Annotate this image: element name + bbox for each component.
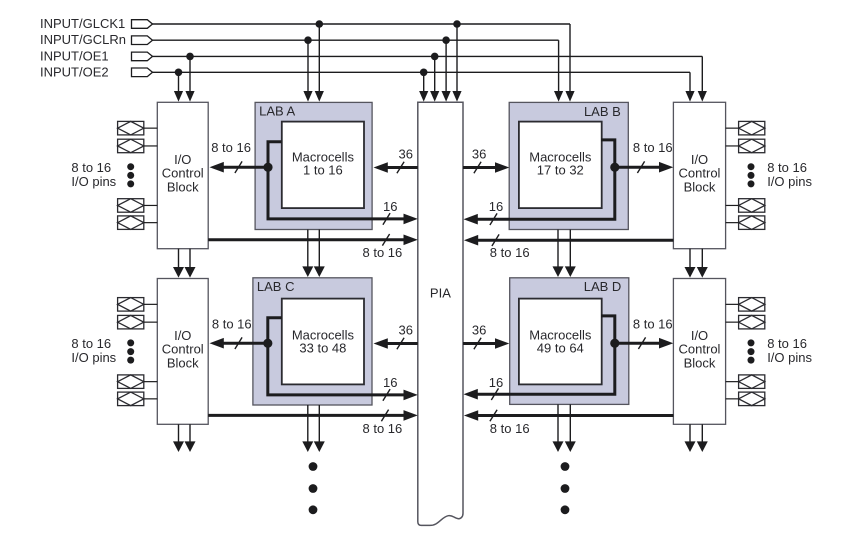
wire right I/O column bottom drop 1 [685, 424, 696, 452]
wire OE2 drop to PIA [419, 72, 428, 101]
label 36 Q2 [472, 147, 486, 162]
wire OE2 drop to right I/O block [685, 72, 694, 101]
wire PIA to LAB B (36) [463, 162, 509, 173]
wire PIA to LAB C (36) [374, 338, 418, 349]
svg-text:36: 36 [399, 147, 413, 162]
svg-text:I/O pins: I/O pins [71, 350, 116, 365]
wire GCLRn drop to PIA [442, 40, 451, 101]
net label INPUT/GCLRn [40, 32, 126, 47]
bus slash Q2 c [490, 213, 497, 225]
bus slash Q4 a [638, 337, 645, 349]
svg-text:Block: Block [684, 356, 716, 371]
svg-text:8 to 16: 8 to 16 [767, 336, 807, 351]
svg-text:INPUT/GCLRn: INPUT/GCLRn [40, 32, 126, 47]
svg-text:Control: Control [162, 166, 204, 181]
wire left I/O to PIA lower (8 to 16) [208, 410, 418, 421]
junction OE1/left I/O [186, 53, 194, 61]
svg-text:INPUT/OE1: INPUT/OE1 [40, 48, 109, 63]
svg-text:LAB C: LAB C [257, 279, 295, 294]
wire LAB A/C column bottom drop 2 [314, 405, 325, 452]
svg-text:Control: Control [679, 166, 721, 181]
label 8 to 16 I/O pins left lower [71, 336, 116, 365]
svg-text:8 to 16: 8 to 16 [633, 317, 673, 332]
bus slash Q1 c [383, 213, 390, 225]
junction GLCK1/PIA [453, 20, 461, 28]
LAB C block [253, 278, 372, 405]
wire left I/O to PIA (8 to 16) [208, 235, 418, 246]
label 36 Q4 [472, 323, 486, 338]
I/O pin symbol right lower 3 [726, 375, 765, 389]
junction LAB C feedback node [263, 339, 272, 348]
svg-text:8 to 16: 8 to 16 [490, 245, 530, 260]
bus slash Q1 b [397, 162, 404, 174]
I/O pin symbol left upper 4 [118, 216, 158, 230]
bus slash Q2 b [474, 162, 481, 174]
I/O pin symbol left lower 3 [118, 375, 158, 389]
wire GCLRn horizontal [153, 39, 559, 41]
continuation dots below LAB D [561, 462, 570, 514]
wire GLCK1 drop to LAB A [315, 24, 324, 102]
wire GLCK1 drop to PIA [452, 24, 461, 102]
junction OE2/PIA [420, 69, 428, 77]
bus slash Q1 d [382, 234, 389, 246]
wire left I/O column mid drop 1 [173, 249, 184, 278]
svg-text:INPUT/OE2: INPUT/OE2 [40, 64, 109, 79]
svg-text:Control: Control [162, 342, 204, 357]
svg-text:16: 16 [383, 375, 397, 390]
bus slash Q3 a [235, 337, 242, 349]
LAB A block [255, 102, 372, 229]
input buffer OE1 [132, 52, 153, 61]
label 8 to 16 I/O pins right lower [767, 336, 812, 365]
I/O pin symbol right upper 2 [726, 139, 765, 153]
junction OE2/left I/O [175, 69, 183, 77]
svg-text:Block: Block [684, 180, 716, 195]
svg-text:8 to 16: 8 to 16 [211, 140, 251, 155]
label 8 to 16 Q1 bottom [363, 245, 403, 260]
svg-text:8 to 16: 8 to 16 [767, 160, 807, 175]
wire LAB D to right I/O (8 to 16) [615, 338, 674, 349]
svg-text:INPUT/GLCK1: INPUT/GLCK1 [40, 16, 125, 31]
wire GLCK1 drop to LAB B [565, 24, 574, 102]
macrocells U3 (33 to 48) [282, 299, 364, 385]
bus slash Q2 a [637, 161, 644, 173]
svg-text:8 to 16: 8 to 16 [71, 160, 111, 175]
I/O pins dots left lower [127, 339, 134, 363]
I/O pin symbol right upper 4 [726, 216, 765, 230]
svg-text:PIA: PIA [430, 286, 451, 301]
PIA block [418, 102, 463, 525]
wire GCLRn drop to LAB B [554, 40, 563, 101]
wire LAB B/D column mid drop 1 [553, 230, 564, 278]
svg-text:16: 16 [489, 375, 503, 390]
wire LAB A to left I/O (8 to 16) [210, 162, 269, 173]
label 36 Q1 [399, 147, 413, 162]
junction OE1/PIA [431, 53, 439, 61]
bus slash Q2 d [492, 234, 499, 246]
label 16 Q4 [489, 375, 503, 390]
svg-text:8 to 16: 8 to 16 [71, 336, 111, 351]
wire OE2 horizontal [153, 71, 691, 73]
wire LAB D feedback loop [464, 316, 615, 400]
bus slash Q4 d [490, 410, 497, 422]
svg-text:33 to 48: 33 to 48 [299, 340, 346, 355]
wire LAB C feedback loop [268, 318, 418, 400]
wire GLCK1 horizontal [153, 23, 571, 25]
wire LAB A/C column mid drop 1 [302, 230, 313, 278]
wire right I/O to PIA lower (8 to 16) [464, 410, 674, 421]
svg-text:17 to 32: 17 to 32 [537, 162, 584, 177]
wire OE1 horizontal [153, 55, 703, 57]
I/O pin symbol left lower 4 [118, 392, 158, 406]
wire right I/O column mid drop 2 [697, 249, 708, 278]
wire LAB B/D column mid drop 2 [565, 230, 576, 278]
continuation dots below LAB C [309, 462, 318, 514]
label 8 to 16 Q4 [633, 317, 673, 332]
svg-text:I/O pins: I/O pins [767, 350, 812, 365]
label 8 to 16 Q3 [212, 317, 252, 332]
svg-text:1 to 16: 1 to 16 [303, 162, 343, 177]
svg-text:16: 16 [383, 199, 397, 214]
label 36 Q3 [399, 323, 413, 338]
macrocells U4 (49 to 64) [519, 299, 602, 385]
label 8 to 16 Q2 [633, 140, 673, 155]
svg-text:8 to 16: 8 to 16 [212, 317, 252, 332]
I/O pin symbol left lower 1 [118, 298, 158, 312]
wire left I/O column bottom drop 2 [185, 424, 196, 452]
wire LAB A feedback loop [268, 142, 418, 224]
I/O control block upper-left [157, 102, 208, 248]
svg-text:LAB A: LAB A [259, 104, 295, 119]
svg-text:Control: Control [679, 342, 721, 357]
wire LAB A/C column bottom drop 1 [302, 405, 313, 452]
svg-text:16: 16 [489, 199, 503, 214]
I/O pin symbol left upper 1 [118, 121, 158, 134]
bus slash Q1 a [235, 161, 242, 173]
junction GCLRn/PIA [442, 36, 450, 44]
junction LAB D feedback node [610, 339, 619, 348]
label 8 to 16 Q1 [211, 140, 251, 155]
svg-text:LAB B: LAB B [584, 104, 621, 119]
label 16 Q2 [489, 199, 503, 214]
LAB D block [510, 278, 629, 405]
wire left I/O column mid drop 2 [185, 249, 196, 278]
svg-text:8 to 16: 8 to 16 [363, 421, 403, 436]
label 16 Q1 [383, 199, 397, 214]
svg-text:I/O pins: I/O pins [767, 174, 812, 189]
input buffer OE2 [132, 68, 153, 77]
macrocells U1 (1 to 16) [282, 122, 364, 209]
svg-text:8 to 16: 8 to 16 [633, 140, 673, 155]
wire PIA to LAB D (36) [463, 338, 509, 349]
wire PIA to LAB A (36) [374, 162, 418, 173]
net label INPUT/OE2 [40, 64, 109, 79]
net label INPUT/OE1 [40, 48, 109, 63]
svg-text:36: 36 [472, 147, 486, 162]
macrocells U2 (17 to 32) [519, 122, 602, 209]
svg-text:I/O pins: I/O pins [71, 174, 116, 189]
I/O pin symbol left upper 3 [118, 199, 158, 213]
wire OE1 drop to PIA [430, 56, 439, 101]
junction LAB B feedback node [610, 163, 619, 172]
bus slash Q3 d [381, 410, 388, 422]
I/O control block lower-left [157, 279, 208, 425]
I/O pins dots left upper [127, 163, 134, 187]
wire OE1 drop to left I/O block [185, 56, 194, 101]
wire right I/O column mid drop 1 [685, 249, 696, 278]
I/O pins dots right lower [748, 339, 755, 363]
LAB B block [509, 102, 628, 229]
svg-text:LAB D: LAB D [584, 279, 622, 294]
label 8 to 16 Q3 bottom [363, 421, 403, 436]
svg-text:36: 36 [399, 323, 413, 338]
label 8 to 16 Q4 bottom [490, 421, 530, 436]
input buffer GCLRn [132, 36, 153, 45]
wire LAB B/D column bottom drop 2 [565, 404, 576, 452]
I/O pin symbol right lower 1 [726, 298, 765, 312]
svg-text:8 to 16: 8 to 16 [490, 421, 530, 436]
bus slash Q4 b [474, 338, 481, 350]
bus slash Q3 c [383, 389, 390, 401]
junction GLCK1/LAB A [316, 20, 324, 28]
label 8 to 16 I/O pins left upper [71, 160, 116, 189]
svg-text:Block: Block [167, 180, 199, 195]
wire GCLRn drop to LAB A [303, 40, 312, 101]
wire LAB B feedback loop [464, 140, 615, 225]
I/O pin symbol left lower 2 [118, 315, 158, 329]
wire LAB B to right I/O (8 to 16) [615, 162, 674, 173]
svg-text:8 to 16: 8 to 16 [363, 245, 403, 260]
input buffer GLCK1 [132, 20, 153, 29]
wire right I/O to PIA (8 to 16) [464, 235, 674, 246]
I/O pin symbol right upper 1 [726, 121, 765, 134]
svg-text:36: 36 [472, 323, 486, 338]
svg-text:Block: Block [167, 356, 199, 371]
wire LAB C to left I/O (8 to 16) [210, 338, 268, 349]
I/O pin symbol left upper 2 [118, 139, 158, 153]
wire right I/O column bottom drop 2 [697, 424, 708, 452]
I/O control block lower-right [673, 279, 725, 425]
svg-text:49 to 64: 49 to 64 [537, 340, 584, 355]
bus slash Q3 b [397, 338, 404, 350]
bus slash Q4 c [491, 388, 498, 400]
label 8 to 16 Q2 bottom [490, 245, 530, 260]
net label INPUT/GLCK1 [40, 16, 125, 31]
junction LAB A feedback node [263, 163, 272, 172]
I/O pin symbol right upper 3 [726, 199, 765, 213]
I/O pins dots right upper [748, 163, 755, 187]
I/O control block upper-right [673, 102, 725, 248]
junction GCLRn/LAB A [304, 36, 312, 44]
label 8 to 16 I/O pins right upper [767, 160, 812, 189]
label 16 Q3 [383, 375, 397, 390]
I/O pin symbol right lower 2 [726, 315, 765, 329]
wire LAB B/D column bottom drop 1 [553, 404, 564, 452]
wire OE2 drop to left I/O block [174, 72, 183, 101]
wire LAB A/C column mid drop 2 [314, 230, 325, 278]
wire OE1 drop to right I/O block [698, 56, 707, 101]
wire left I/O column bottom drop 1 [173, 424, 184, 452]
I/O pin symbol right lower 4 [726, 392, 765, 406]
